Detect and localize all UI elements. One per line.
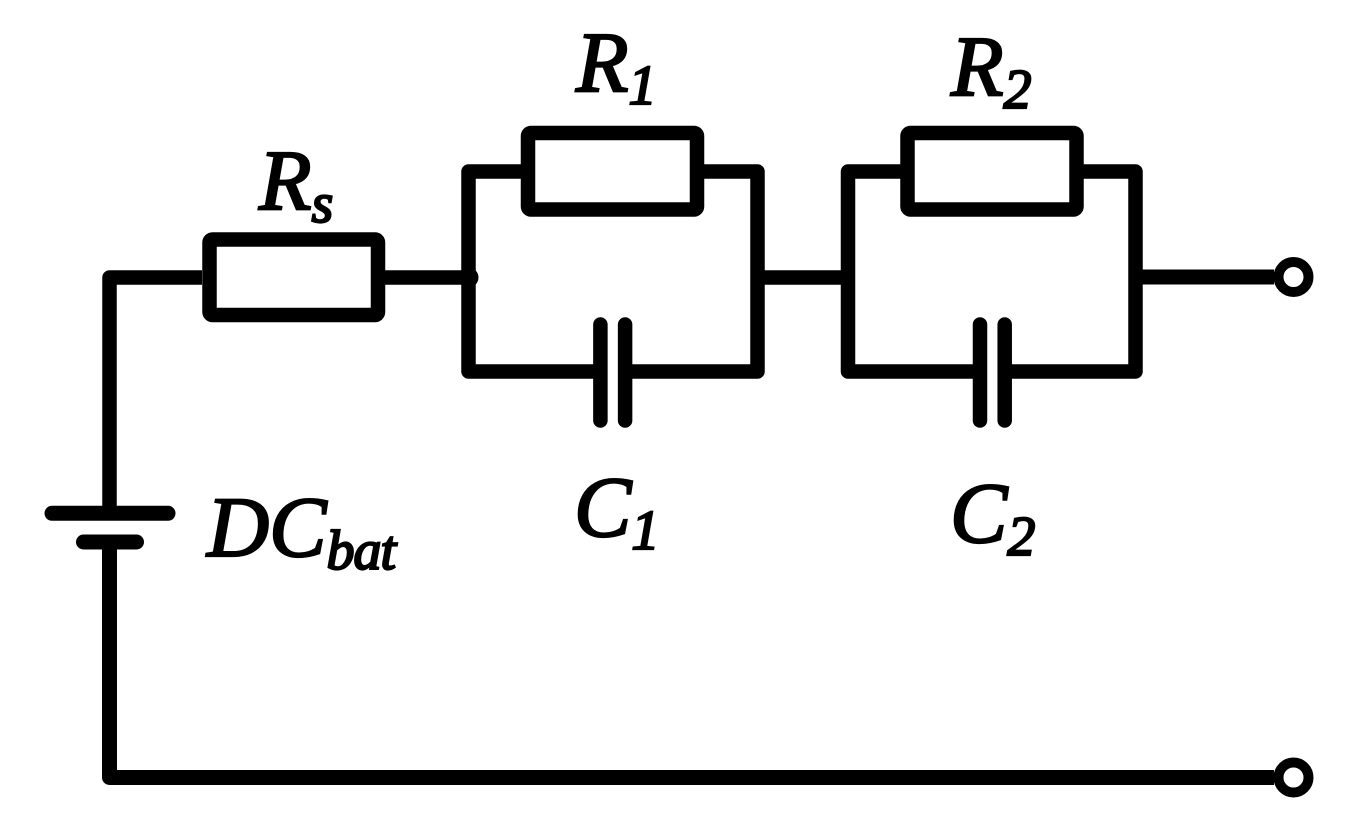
resistor Rs box	[210, 240, 379, 316]
wire: Rs to RC1 node	[378, 270, 469, 285]
node junction dot	[459, 268, 479, 288]
wire: left vertical below battery and bottom return wire	[110, 542, 1275, 778]
resistor R2 box	[908, 133, 1077, 210]
resistor R1 box	[528, 133, 697, 210]
capacitor C1 left plate	[593, 325, 608, 421]
wire: RC1 right bracket	[632, 172, 758, 372]
terminal bottom-right	[1279, 763, 1309, 793]
battery DCbat short plate (negative)	[84, 535, 137, 550]
wire: left branch top wire and left vertical down to battery top plate	[110, 278, 203, 508]
wire: RC2 to output terminal	[1136, 270, 1275, 285]
terminal top-right	[1279, 262, 1309, 292]
wire: RC1 left bracket	[469, 172, 595, 372]
wire: RC2 left bracket	[848, 172, 974, 372]
wire: RC1 to RC2	[758, 270, 849, 285]
battery DCbat long plate (positive)	[52, 506, 168, 521]
capacitor C1 right plate	[618, 325, 633, 421]
capacitor C2 right plate	[997, 325, 1012, 421]
wire: RC2 right bracket	[1012, 172, 1136, 372]
capacitor C2 left plate	[973, 325, 988, 421]
